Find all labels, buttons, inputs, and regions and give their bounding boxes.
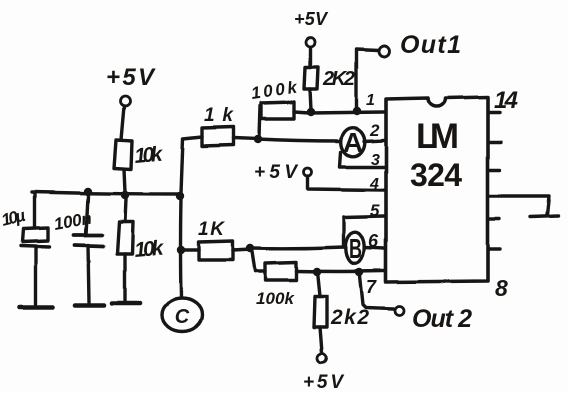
svg-text:100k: 100k bbox=[256, 289, 296, 308]
svg-text:4: 4 bbox=[369, 176, 379, 193]
svg-text:B: B bbox=[349, 233, 362, 264]
svg-text:LM: LM bbox=[416, 117, 459, 156]
svg-text:10µ: 10µ bbox=[0, 206, 27, 230]
svg-text:C: C bbox=[175, 306, 190, 328]
svg-text:324: 324 bbox=[410, 157, 462, 193]
svg-text:10k: 10k bbox=[133, 236, 165, 262]
svg-text:A: A bbox=[343, 127, 363, 158]
svg-text:+5V: +5V bbox=[294, 9, 329, 29]
svg-text:3: 3 bbox=[371, 152, 380, 169]
svg-text:+5V: +5V bbox=[254, 162, 298, 183]
svg-text:100k: 100k bbox=[250, 78, 300, 103]
svg-text:14: 14 bbox=[494, 87, 518, 114]
svg-text:1K: 1K bbox=[198, 219, 225, 240]
svg-text:10k: 10k bbox=[133, 143, 164, 168]
svg-text:6: 6 bbox=[368, 231, 379, 251]
svg-text:+5V: +5V bbox=[106, 64, 156, 91]
svg-text:Out 2: Out 2 bbox=[412, 305, 472, 333]
svg-text:2: 2 bbox=[369, 121, 380, 140]
svg-text:5: 5 bbox=[370, 201, 380, 220]
svg-text:1: 1 bbox=[366, 92, 375, 109]
svg-text:Out1: Out1 bbox=[400, 31, 461, 59]
svg-text:8: 8 bbox=[495, 275, 508, 301]
svg-text:2K2: 2K2 bbox=[322, 68, 355, 90]
svg-text:7: 7 bbox=[366, 277, 377, 297]
svg-text:1k: 1k bbox=[204, 105, 234, 126]
svg-text:2k2: 2k2 bbox=[330, 306, 369, 329]
svg-text:+5V: +5V bbox=[303, 372, 344, 393]
